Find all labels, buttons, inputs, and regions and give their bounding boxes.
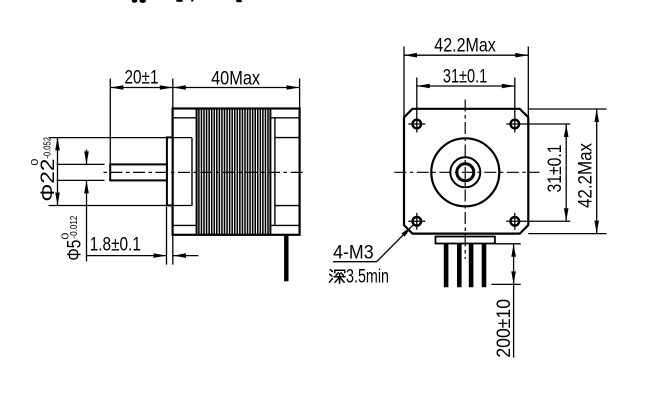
svg-text:-0.052: -0.052 <box>43 137 54 159</box>
svg-text:3.5min: 3.5min <box>346 266 389 288</box>
svg-text:31±0.1: 31±0.1 <box>544 145 566 193</box>
svg-text:0: 0 <box>30 158 41 166</box>
svg-text:40Max: 40Max <box>211 67 260 89</box>
svg-text:200±10: 200±10 <box>493 299 515 358</box>
svg-text:-0.012: -0.012 <box>69 215 80 238</box>
svg-text:42.2Max: 42.2Max <box>575 143 597 208</box>
svg-text:4-M3: 4-M3 <box>333 242 374 264</box>
svg-text:20±1: 20±1 <box>125 67 159 89</box>
svg-text:42.2Max: 42.2Max <box>434 35 496 57</box>
svg-text:31±0.1: 31±0.1 <box>443 66 487 88</box>
svg-text:1.8±0.1: 1.8±0.1 <box>90 234 141 256</box>
svg-text:Φ5: Φ5 <box>64 239 86 260</box>
